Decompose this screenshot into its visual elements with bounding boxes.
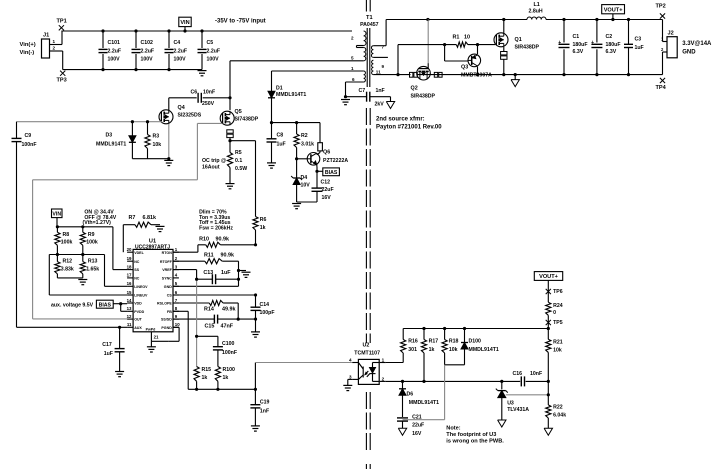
transistor Q1 (buck FET) xyxy=(494,20,540,51)
net label BIAS (VDD) xyxy=(51,300,127,311)
svg-text:1k: 1k xyxy=(260,225,266,231)
ground at C5 xyxy=(198,71,207,76)
wire: CS to pin 6 xyxy=(173,293,257,296)
svg-text:D6: D6 xyxy=(407,391,414,397)
svg-text:14: 14 xyxy=(127,298,132,303)
capacitor C19 xyxy=(250,389,269,426)
resistor R7 xyxy=(123,215,160,252)
svg-text:+: + xyxy=(591,40,594,46)
svg-text:PVDD: PVDD xyxy=(134,310,144,314)
capacitor C15 xyxy=(173,315,257,330)
svg-text:TLV431A: TLV431A xyxy=(507,407,529,413)
capacitor C8 xyxy=(267,123,286,163)
svg-text:22uF: 22uF xyxy=(412,423,424,429)
svg-text:6.3V: 6.3V xyxy=(573,49,584,55)
svg-text:Vin(+): Vin(+) xyxy=(20,42,36,48)
svg-text:NC: NC xyxy=(134,277,140,281)
svg-text:C6: C6 xyxy=(191,89,198,95)
svg-text:1: 1 xyxy=(351,66,354,71)
svg-text:C9: C9 xyxy=(25,133,32,139)
transistor Q2 (sync FET) xyxy=(411,20,436,100)
svg-text:10k: 10k xyxy=(553,347,562,353)
pads below Q5 xyxy=(227,130,233,138)
ground at divider xyxy=(78,280,87,285)
wire: divider top rail xyxy=(56,225,113,228)
diode D1 xyxy=(268,71,306,123)
svg-text:(Vth=1.27V): (Vth=1.27V) xyxy=(83,220,112,226)
resistor R5 (current sense) xyxy=(227,141,247,184)
text duty cycle info xyxy=(199,210,233,232)
wire: R12 R13 bottoms xyxy=(57,277,82,279)
svg-text:16V: 16V xyxy=(322,195,332,201)
capacitor C101 xyxy=(99,29,122,71)
svg-text:C5: C5 xyxy=(207,40,214,46)
capacitor C14 xyxy=(251,295,275,332)
net label VIN (input) xyxy=(179,17,191,32)
svg-text:TP4: TP4 xyxy=(656,85,667,91)
svg-text:16Aout: 16Aout xyxy=(202,164,220,170)
svg-text:2: 2 xyxy=(382,377,385,382)
resistor R14 xyxy=(173,300,238,319)
svg-text:SIR438DP: SIR438DP xyxy=(411,93,436,99)
net label BIAS (Q6) xyxy=(317,168,339,176)
svg-text:2.2uF: 2.2uF xyxy=(141,49,155,55)
wire: D4 C12 bottoms xyxy=(297,201,317,203)
svg-text:R13: R13 xyxy=(88,259,98,265)
svg-text:22uF: 22uF xyxy=(322,187,334,193)
svg-text:11: 11 xyxy=(376,69,381,74)
svg-text:GND: GND xyxy=(682,50,696,56)
svg-text:TP3: TP3 xyxy=(57,78,67,84)
svg-text:13: 13 xyxy=(127,306,132,311)
svg-text:U3: U3 xyxy=(507,400,514,406)
svg-text:PwPd: PwPd xyxy=(146,328,156,332)
capacitor C9 xyxy=(12,122,37,328)
svg-text:VOUT+: VOUT+ xyxy=(539,274,559,280)
svg-text:D3: D3 xyxy=(106,132,113,138)
wire: Q5 source node xyxy=(228,138,255,142)
svg-text:21: 21 xyxy=(154,335,159,340)
connector J2 xyxy=(661,31,712,58)
svg-text:6.81k: 6.81k xyxy=(143,215,157,221)
svg-text:2.2uF: 2.2uF xyxy=(174,49,188,55)
resistor R22 xyxy=(546,405,566,429)
wire: Q4 gate line xyxy=(17,121,163,123)
svg-text:BIAS: BIAS xyxy=(325,170,338,176)
transistor Q3 xyxy=(445,45,492,79)
text 2nd source xfmr xyxy=(376,117,442,131)
svg-text:6: 6 xyxy=(352,77,355,82)
svg-text:R11: R11 xyxy=(204,253,214,259)
svg-text:VIN: VIN xyxy=(52,212,61,218)
resistor R18 xyxy=(442,329,459,365)
svg-text:90.9k: 90.9k xyxy=(221,253,235,259)
transistor Q5 (main FET) xyxy=(220,109,258,125)
svg-text:R100: R100 xyxy=(223,367,236,373)
svg-text:R16: R16 xyxy=(408,339,418,345)
svg-text:Vin(-): Vin(-) xyxy=(20,50,35,56)
resistor R9 xyxy=(80,227,98,262)
svg-text:0.1: 0.1 xyxy=(235,158,242,164)
net label VIN (divider) xyxy=(52,209,63,227)
wire: VOUT sense top line xyxy=(403,327,550,330)
svg-text:R1: R1 xyxy=(453,35,460,41)
text input range xyxy=(215,18,266,24)
svg-text:R12: R12 xyxy=(63,259,73,265)
resistor R100 xyxy=(215,367,235,390)
wire: input - bottom rail xyxy=(63,51,202,70)
svg-text:U2: U2 xyxy=(363,343,370,349)
svg-text:10: 10 xyxy=(175,322,180,327)
ground at U1 PwPd xyxy=(147,341,168,352)
svg-text:R21: R21 xyxy=(553,340,563,346)
svg-text:C12: C12 xyxy=(321,180,331,186)
svg-text:R15: R15 xyxy=(202,367,212,373)
capacitor C1 xyxy=(558,20,587,75)
resistor R1 xyxy=(398,35,495,75)
svg-text:10V: 10V xyxy=(301,183,311,189)
svg-text:1nF: 1nF xyxy=(260,408,269,414)
svg-text:RTOFF: RTOFF xyxy=(160,260,173,264)
svg-text:VDEL: VDEL xyxy=(134,251,144,255)
svg-text:TP5: TP5 xyxy=(553,320,563,326)
ground at T1 pin 6 xyxy=(341,95,350,105)
net label VOUT+ (top) xyxy=(602,5,625,20)
transformer T1 primary winding bottom (pins 1-6) xyxy=(272,66,366,97)
wire: secondary bottom rail xyxy=(396,73,662,76)
svg-text:100V: 100V xyxy=(174,57,187,63)
resistor R21 xyxy=(546,329,563,405)
svg-text:RSLOPE: RSLOPE xyxy=(157,302,172,306)
svg-text:0: 0 xyxy=(553,310,556,316)
svg-text:VIN: VIN xyxy=(180,20,189,26)
svg-text:2.2uF: 2.2uF xyxy=(108,49,122,55)
svg-text:LINEOV: LINEOV xyxy=(134,285,148,289)
ground at C17 xyxy=(115,372,124,377)
svg-text:D4: D4 xyxy=(301,175,308,181)
resistor R10 xyxy=(173,237,257,253)
svg-text:BIAS: BIAS xyxy=(99,302,112,308)
op-amp U1 UCC2897ARTJ controller xyxy=(127,238,181,341)
svg-text:C19: C19 xyxy=(260,400,270,406)
svg-text:1nF: 1nF xyxy=(376,88,385,94)
diode D100 xyxy=(461,329,499,365)
capacitor C4 xyxy=(165,29,188,71)
ground at R5 xyxy=(226,184,235,189)
svg-text:LINEUV: LINEUV xyxy=(134,294,148,298)
resistor R4 (collector box) xyxy=(317,123,323,155)
svg-text:2: 2 xyxy=(53,46,56,51)
transformer T1 secondary winding top (pins 7-9) xyxy=(371,20,387,70)
svg-text:Q2: Q2 xyxy=(411,86,418,92)
svg-text:NC: NC xyxy=(134,260,140,264)
svg-text:SI7438DP: SI7438DP xyxy=(235,117,259,123)
ground at R7 xyxy=(156,226,165,231)
resistor R2 xyxy=(294,123,314,159)
svg-text:10k: 10k xyxy=(449,347,458,353)
svg-text:FB: FB xyxy=(167,310,172,314)
svg-text:PA0457: PA0457 xyxy=(360,22,378,28)
svg-text:C1: C1 xyxy=(573,34,580,40)
svg-text:MMDL914T1: MMDL914T1 xyxy=(469,347,499,353)
svg-text:CS: CS xyxy=(167,294,173,298)
svg-text:R9: R9 xyxy=(88,232,95,238)
svg-text:+: + xyxy=(558,40,561,46)
svg-text:20: 20 xyxy=(127,247,132,252)
svg-text:10: 10 xyxy=(464,35,470,41)
wire: input + top rail xyxy=(61,31,352,45)
optocoupler U2 TCMT1107 xyxy=(349,343,386,385)
svg-text:C17: C17 xyxy=(102,342,112,348)
resistor R15 xyxy=(194,367,211,390)
wire: Q5 gate line (from U1 OUT) xyxy=(33,123,223,319)
svg-text:Payton #721001 Rev.00: Payton #721001 Rev.00 xyxy=(376,125,442,131)
svg-text:J2: J2 xyxy=(668,31,674,37)
text note xyxy=(446,425,504,444)
svg-text:C21: C21 xyxy=(412,414,422,420)
svg-text:VREF: VREF xyxy=(162,268,172,272)
wire: bias top rail xyxy=(270,121,320,124)
svg-text:250V: 250V xyxy=(202,101,215,107)
test point TP6 xyxy=(546,289,563,295)
svg-text:10nF: 10nF xyxy=(203,89,215,95)
svg-text:Q5: Q5 xyxy=(235,109,242,115)
svg-text:0.5W: 0.5W xyxy=(235,166,247,172)
svg-text:100nF: 100nF xyxy=(22,142,37,148)
capacitor C21 xyxy=(397,414,424,437)
svg-text:is wrong on the PWB.: is wrong on the PWB. xyxy=(446,439,504,445)
svg-text:1k: 1k xyxy=(223,375,229,381)
svg-text:2kV: 2kV xyxy=(375,102,385,108)
svg-text:SI2325DS: SI2325DS xyxy=(178,112,202,118)
zener D4 xyxy=(291,159,310,202)
wire: FB net xyxy=(173,311,352,391)
svg-text:L1: L1 xyxy=(534,2,540,8)
ground arrow at R22 xyxy=(544,428,552,435)
transistor Q4 (P-FET) xyxy=(159,98,202,124)
svg-text:Q6: Q6 xyxy=(323,149,330,155)
test point TP4 xyxy=(656,78,667,91)
shunt regulator U3 TLV431A xyxy=(496,381,550,420)
svg-text:1: 1 xyxy=(53,39,56,44)
capacitor C7 (Y-cap across barrier) xyxy=(346,88,391,108)
svg-text:2: 2 xyxy=(351,36,354,41)
svg-text:5: 5 xyxy=(351,55,354,60)
svg-text:3.01k: 3.01k xyxy=(301,142,314,148)
svg-text:R18: R18 xyxy=(449,339,459,345)
resistor R3 xyxy=(145,120,161,159)
svg-text:100nF: 100nF xyxy=(222,350,237,356)
svg-text:The footprint of U3: The footprint of U3 xyxy=(446,432,496,438)
svg-text:1.65k: 1.65k xyxy=(86,266,99,272)
svg-text:MMDL914T1: MMDL914T1 xyxy=(96,142,126,148)
ground at C8 xyxy=(267,163,276,168)
svg-text:16: 16 xyxy=(127,281,132,286)
test point TP2 xyxy=(656,4,666,19)
svg-text:C2: C2 xyxy=(606,34,613,40)
svg-text:2.8uH: 2.8uH xyxy=(529,9,543,15)
svg-text:C7: C7 xyxy=(359,88,366,94)
wire: opto pin 2 line xyxy=(386,380,519,383)
svg-text:1uF: 1uF xyxy=(635,45,644,51)
svg-text:1k: 1k xyxy=(202,375,208,381)
transformer T1 core xyxy=(367,28,370,87)
svg-text:T1: T1 xyxy=(366,15,373,21)
svg-text:16V: 16V xyxy=(412,431,422,437)
test point TP1 xyxy=(57,19,67,31)
svg-text:4: 4 xyxy=(349,358,352,363)
svg-text:19: 19 xyxy=(127,256,132,261)
svg-text:1uF: 1uF xyxy=(221,270,231,276)
svg-text:100k: 100k xyxy=(61,239,73,245)
transformer T1 primary winding top (pins 2-5) xyxy=(351,31,366,61)
svg-text:3.3V@14A: 3.3V@14A xyxy=(682,41,712,47)
ground at C19 xyxy=(251,426,260,431)
wire: Q6 base xyxy=(295,157,307,160)
svg-text:Fsw = 206kHz: Fsw = 206kHz xyxy=(199,225,233,231)
capacitor C3 xyxy=(624,20,644,75)
svg-text:100V: 100V xyxy=(141,57,154,63)
svg-text:AUX: AUX xyxy=(134,326,142,330)
svg-text:C8: C8 xyxy=(277,133,284,139)
wire: to J2 pin1 xyxy=(662,20,664,42)
svg-text:180uF: 180uF xyxy=(573,42,588,48)
resistor R8 xyxy=(55,227,73,262)
capacitor C16 xyxy=(513,371,550,386)
svg-text:R2: R2 xyxy=(301,133,308,139)
svg-text:49.9k: 49.9k xyxy=(222,307,236,313)
isolation barrier dashed line left xyxy=(365,0,367,469)
resistor R13 xyxy=(80,259,99,278)
svg-text:VOUT+: VOUT+ xyxy=(604,7,624,13)
svg-text:90.9k: 90.9k xyxy=(216,237,230,243)
resistor R16 xyxy=(401,329,418,363)
svg-text:SS: SS xyxy=(134,268,139,272)
svg-text:MMBT2907A: MMBT2907A xyxy=(461,72,492,78)
capacitor C17 xyxy=(102,326,124,372)
text ON/OFF thresholds xyxy=(83,210,117,227)
svg-text:15: 15 xyxy=(127,290,132,295)
svg-text:UCC2897ARTJ: UCC2897ARTJ xyxy=(135,244,170,250)
svg-text:TP6: TP6 xyxy=(553,289,563,295)
capacitor C12 xyxy=(312,180,334,203)
transistor Q6 xyxy=(307,149,348,165)
svg-text:100V: 100V xyxy=(207,57,220,63)
svg-text:18: 18 xyxy=(127,264,132,269)
net label VOUT+ (sense) xyxy=(534,272,562,303)
capacitor C5 xyxy=(198,29,221,69)
wire: Q4 source to ground xyxy=(168,124,170,159)
svg-text:301: 301 xyxy=(408,347,417,353)
svg-text:SIR438DP: SIR438DP xyxy=(515,45,540,51)
svg-text:SYNC: SYNC xyxy=(162,277,172,281)
test point TP5 xyxy=(546,320,563,326)
svg-text:Q3: Q3 xyxy=(461,64,468,70)
svg-text:R6: R6 xyxy=(260,217,267,223)
svg-text:1uF: 1uF xyxy=(104,351,113,357)
svg-text:C102: C102 xyxy=(141,40,154,46)
svg-text:3.83k: 3.83k xyxy=(61,266,74,272)
capacitor C2 xyxy=(591,20,620,75)
svg-text:C101: C101 xyxy=(108,40,121,46)
svg-text:aux. voltage 9.5V: aux. voltage 9.5V xyxy=(51,302,94,308)
svg-text:OUT: OUT xyxy=(134,318,142,322)
svg-text:1: 1 xyxy=(382,358,385,363)
svg-text:R14: R14 xyxy=(204,307,214,313)
isolation barrier dashed line right xyxy=(369,0,371,469)
ground at C14 xyxy=(251,332,260,337)
svg-text:1k: 1k xyxy=(429,347,435,353)
svg-text:R7: R7 xyxy=(129,215,136,221)
svg-text:11: 11 xyxy=(127,322,132,327)
diode D6 xyxy=(399,381,439,417)
svg-text:180uF: 180uF xyxy=(606,42,621,48)
svg-text:MMDL914T1: MMDL914T1 xyxy=(409,400,439,406)
wire: secondary top rail xyxy=(386,18,662,21)
svg-text:R5: R5 xyxy=(235,150,242,156)
svg-text:J1: J1 xyxy=(43,33,49,39)
svg-text:47nF: 47nF xyxy=(221,323,234,329)
svg-text:TP2: TP2 xyxy=(656,4,666,10)
svg-text:D100: D100 xyxy=(469,339,482,345)
svg-text:R24: R24 xyxy=(553,303,563,309)
svg-text:9: 9 xyxy=(382,64,385,69)
svg-text:Q1: Q1 xyxy=(515,37,522,43)
wire: VREF column xyxy=(195,278,198,367)
svg-text:C4: C4 xyxy=(174,40,181,46)
svg-text:100pF: 100pF xyxy=(260,310,275,316)
svg-text:C100: C100 xyxy=(222,341,235,347)
svg-text:R17: R17 xyxy=(429,339,439,345)
svg-text:2nd source xfmr:: 2nd source xfmr: xyxy=(376,117,425,123)
svg-text:6.04k: 6.04k xyxy=(553,413,566,419)
svg-text:6.3V: 6.3V xyxy=(606,49,617,55)
pads below Q1 xyxy=(501,47,507,75)
ground arrow at U3 xyxy=(498,420,506,427)
text OC trip xyxy=(202,158,226,171)
svg-text:10k: 10k xyxy=(153,142,162,148)
svg-text:PGND: PGND xyxy=(161,326,172,330)
svg-text:100V: 100V xyxy=(108,57,121,63)
svg-text:SS/SD: SS/SD xyxy=(161,318,172,322)
svg-text:Q4: Q4 xyxy=(178,105,185,111)
ground at D4/C12 xyxy=(292,204,301,209)
capacitor C102 xyxy=(132,29,155,71)
svg-text:12: 12 xyxy=(127,314,132,319)
svg-text:-35V to -75V input: -35V to -75V input xyxy=(215,18,266,24)
svg-text:C13: C13 xyxy=(203,270,213,276)
wire: PGND to pad ground xyxy=(168,327,179,341)
svg-text:C15: C15 xyxy=(205,323,215,329)
svg-text:R3: R3 xyxy=(153,133,160,139)
wire: AUX line from C9 xyxy=(17,326,128,328)
ground at R11/C13 xyxy=(242,272,251,277)
svg-text:TP1: TP1 xyxy=(57,19,67,25)
resistor R17 xyxy=(421,329,438,382)
test point TP3 xyxy=(57,71,67,84)
inductor L1 xyxy=(527,2,546,20)
ground at U2 pin 3 xyxy=(343,379,352,390)
svg-text:GND: GND xyxy=(164,285,172,289)
wire: J2 pin2 to bottom rail xyxy=(662,52,664,75)
resistor R6 xyxy=(253,141,267,245)
svg-text:MMDL914T1: MMDL914T1 xyxy=(276,92,306,98)
svg-text:2.2uF: 2.2uF xyxy=(207,49,221,55)
wire: divider tap to LINEUV/LINEOV xyxy=(49,253,127,295)
svg-text:1uF: 1uF xyxy=(277,142,286,148)
ground at Q4 source xyxy=(164,157,173,166)
resistor R12 xyxy=(55,259,74,278)
